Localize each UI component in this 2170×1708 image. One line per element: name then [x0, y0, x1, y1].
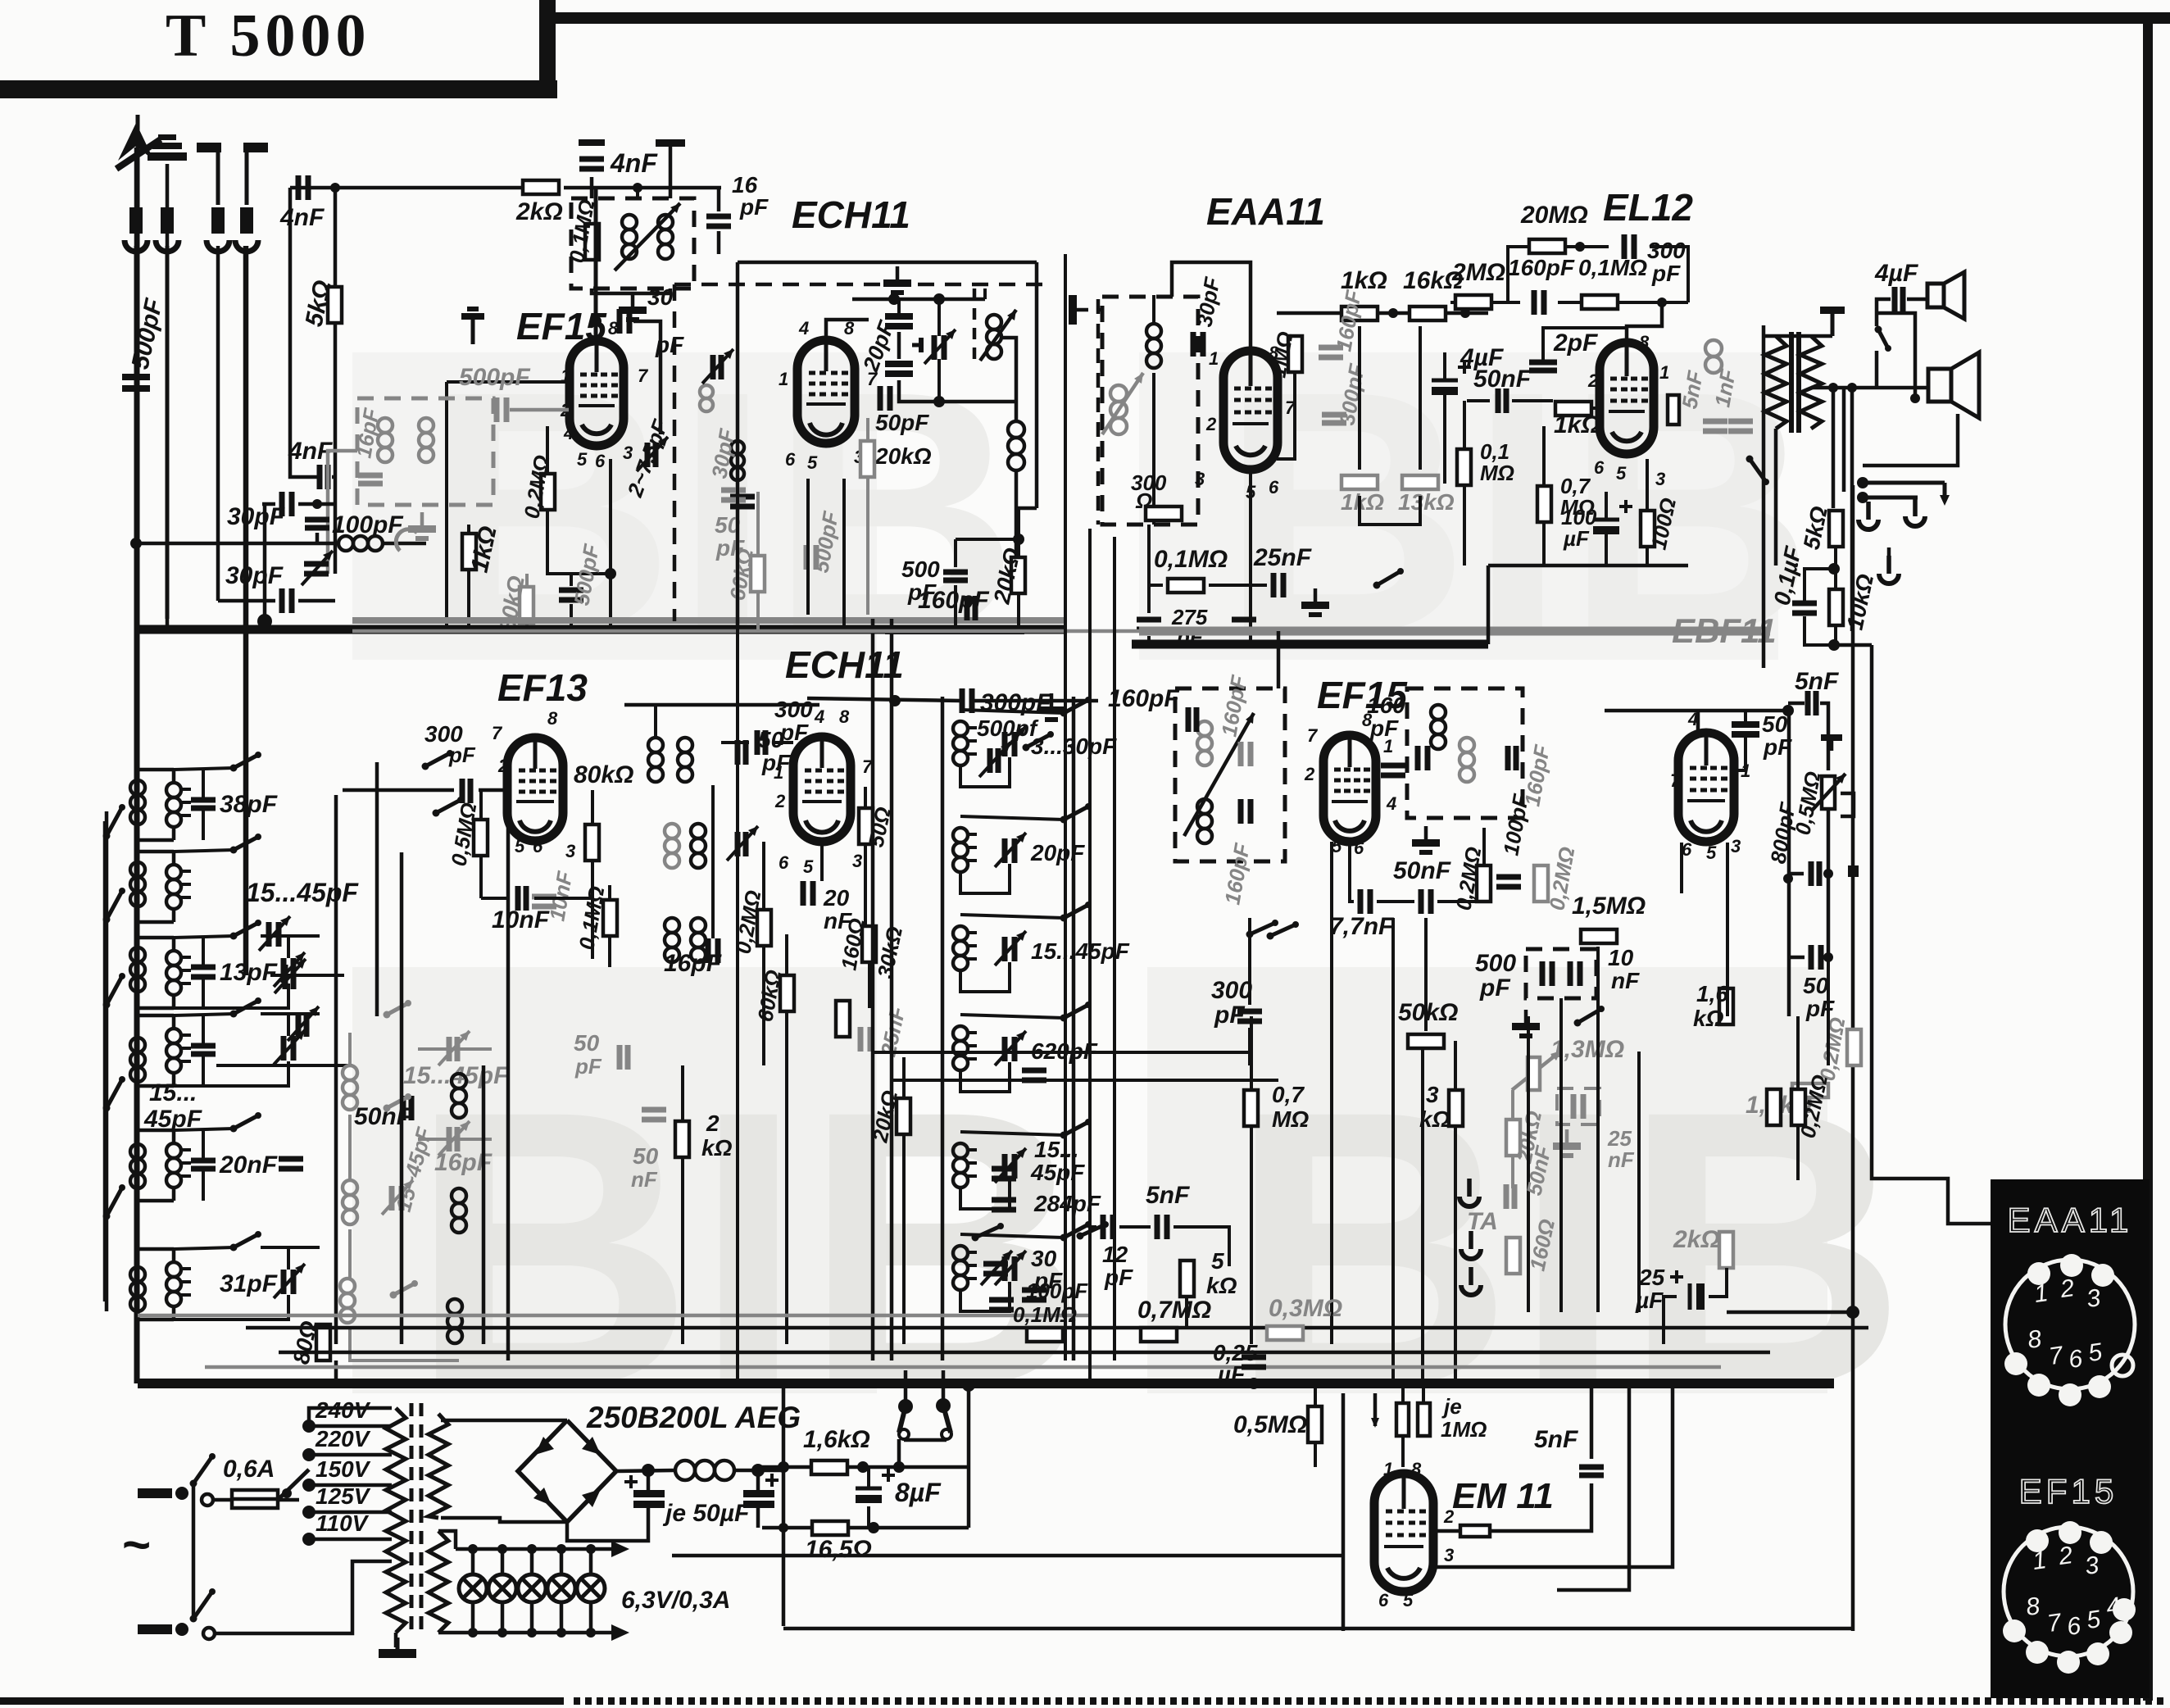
- wire: [418, 1047, 492, 1051]
- wire: [1557, 1383, 1629, 1590]
- wire: [438, 1414, 567, 1420]
- label 125V: [316, 1483, 371, 1509]
- pin 8b: [1269, 343, 1279, 363]
- label 25µF a: [1638, 1265, 1665, 1290]
- svg-text:50kΩ: 50kΩ: [1398, 999, 1458, 1026]
- label 6,3V/0,3A: [621, 1587, 730, 1614]
- wire: [288, 1247, 289, 1265]
- label 60kΩ g: [724, 547, 758, 602]
- pin 4a: [798, 318, 809, 338]
- wire: [1341, 1393, 1346, 1631]
- svg-text:1: 1: [1659, 362, 1669, 383]
- wire: [288, 1014, 289, 1032]
- svg-text:50: 50: [633, 1143, 659, 1169]
- dashed wire: [674, 283, 1049, 287]
- junction: [468, 1628, 478, 1638]
- svg-text:25nF: 25nF: [1253, 544, 1312, 571]
- label pF f: [1369, 715, 1399, 741]
- label 160 f: [1367, 693, 1405, 718]
- jack TA 2: [1461, 1231, 1481, 1259]
- pin 4g: [1687, 709, 1698, 729]
- band capacitor 5: [191, 1161, 216, 1169]
- osc switch 1: [1060, 697, 1092, 717]
- resistor 50Ω: [859, 808, 873, 844]
- osc trimmer 2: [995, 833, 1026, 867]
- resistor 0,1MΩ: [585, 224, 599, 260]
- svg-text:20nF: 20nF: [219, 1152, 278, 1179]
- wire: [721, 741, 749, 744]
- wire: [852, 298, 985, 302]
- wire: [342, 790, 343, 1383]
- ecap 50µF b: [743, 1470, 779, 1508]
- wire: [1834, 643, 1872, 647]
- pin 6e: [779, 852, 789, 873]
- label 4nF top: [610, 148, 658, 178]
- top cap lead: [594, 188, 598, 341]
- label 300pF g: [1334, 361, 1369, 427]
- resistor 20kΩ g: [1506, 1120, 1520, 1156]
- pin 6f: [1354, 838, 1364, 858]
- svg-text:160pF: 160pF: [1108, 685, 1179, 712]
- wire: [1842, 388, 1846, 492]
- svg-text:EAA11: EAA11: [2008, 1201, 2133, 1239]
- label 20nF: [219, 1152, 278, 1179]
- svg-text:7: 7: [638, 366, 649, 386]
- svg-text:110V: 110V: [316, 1510, 370, 1536]
- resistor 0,1MΩ b: [1168, 579, 1204, 593]
- wire: [1358, 326, 1361, 470]
- band coil 6: [138, 1249, 191, 1320]
- socket EAA11: [2004, 1254, 2135, 1406]
- wire: [334, 459, 338, 574]
- label 25nF g2: [1607, 1126, 1632, 1151]
- pin 2c: [1587, 370, 1599, 391]
- osc switch 5: [1060, 1119, 1092, 1139]
- wire: [1424, 918, 1428, 1031]
- resistor 160Ω a: [862, 926, 876, 962]
- capacitor 300pF r2: [462, 779, 470, 803]
- wire: [1147, 636, 1151, 644]
- svg-text:4µF: 4µF: [1874, 260, 1918, 287]
- label uF: [1563, 526, 1590, 551]
- mains terminal 2: [138, 1623, 188, 1636]
- wire: [1688, 311, 1765, 336]
- wire: [1113, 537, 1116, 1360]
- wire: [897, 1439, 901, 1467]
- osc trimmer 5: [995, 1148, 1026, 1183]
- main ground bus: [138, 1379, 1834, 1388]
- gray cap 50nF2: [642, 1110, 666, 1120]
- svg-text:160pF: 160pF: [1508, 255, 1575, 280]
- label 500pF: [127, 296, 168, 371]
- wire: [1709, 1268, 1727, 1297]
- junction: [933, 293, 945, 305]
- svg-text:2: 2: [774, 791, 786, 811]
- label 15...45pF: [1031, 938, 1130, 964]
- label pF f2: [1479, 974, 1510, 1002]
- pin 1: [561, 366, 570, 386]
- resistor 0,1MΩ h: [1027, 1328, 1063, 1342]
- wire: [525, 623, 529, 629]
- label pF 12: [1104, 1265, 1133, 1290]
- wire: [348, 1033, 352, 1065]
- wire: [967, 1385, 971, 1528]
- label 0,2MΩ m: [730, 888, 765, 956]
- capacitor 4nF top: [579, 139, 605, 169]
- svg-text:10: 10: [1608, 945, 1634, 970]
- label 80Ω: [288, 1319, 322, 1366]
- svg-text:0,6A: 0,6A: [223, 1456, 275, 1483]
- svg-text:8: 8: [1411, 1459, 1422, 1479]
- label kΩ v: [1693, 1006, 1724, 1031]
- rail coil: [130, 947, 145, 992]
- gray switch d: [390, 1280, 419, 1299]
- svg-text:5: 5: [577, 449, 588, 470]
- wire: [525, 574, 529, 587]
- band switch 3: [230, 920, 262, 940]
- wire: [1796, 1125, 1800, 1180]
- wire: [1850, 388, 1854, 631]
- pilot lamp 1: [459, 1574, 487, 1602]
- wire: [866, 477, 869, 615]
- wire: [899, 380, 1016, 402]
- wire: [348, 1229, 352, 1279]
- pin 1h: [1383, 1459, 1393, 1479]
- resistor 80kΩ: [520, 587, 533, 623]
- mains switch 2: [190, 1588, 216, 1639]
- capacitor 0,25µF: [1242, 1357, 1266, 1367]
- resistor 80Ω: [316, 1324, 330, 1360]
- wire: [624, 703, 819, 707]
- gray cap 1nF: [1728, 421, 1753, 431]
- band capacitor 4: [191, 1046, 216, 1054]
- svg-text:je: je: [1441, 1394, 1462, 1419]
- speaker big: [1928, 352, 1979, 418]
- wire: [609, 459, 612, 629]
- label 800pF r: [1765, 800, 1800, 865]
- svg-text:1,6: 1,6: [1696, 981, 1728, 1006]
- wire: [174, 983, 288, 1008]
- pin 7d: [492, 723, 503, 743]
- svg-text:7: 7: [1670, 770, 1682, 791]
- arrow em: [1371, 1393, 1379, 1428]
- wire: [1487, 566, 1491, 644]
- label 50pF g2: [574, 1030, 600, 1056]
- label 20MΩ: [1520, 202, 1588, 229]
- capacitor 300pF bot: [1237, 1011, 1262, 1021]
- IF3 dashed box: [1175, 688, 1285, 861]
- antenna: [116, 123, 161, 365]
- chain switch: [103, 1076, 126, 1112]
- pin 4f: [1386, 793, 1396, 814]
- wire: [213, 1561, 392, 1633]
- label 160pF g4: [1519, 743, 1555, 808]
- capacitor 300pF m: [757, 730, 765, 755]
- label 300pF top: [980, 689, 1051, 716]
- wire: [655, 785, 656, 824]
- wire: [669, 288, 673, 293]
- junction: [497, 1544, 507, 1554]
- label mains ~: [121, 1517, 150, 1572]
- svg-text:8: 8: [547, 708, 558, 729]
- label 275pF: [1171, 605, 1208, 629]
- label 1,6 v: [1696, 981, 1728, 1006]
- pin 2f: [1304, 764, 1315, 784]
- label 1kΩ h: [1341, 267, 1387, 294]
- bottom border dotted: [574, 1697, 2163, 1705]
- label 2kΩ v: [706, 1111, 720, 1136]
- pin 5h: [1403, 1590, 1414, 1610]
- wire: [1209, 584, 1267, 587]
- dashed det box: [1102, 297, 1198, 525]
- speaker small: [1927, 272, 1964, 319]
- wire: [202, 1130, 205, 1158]
- svg-text:5: 5: [807, 452, 818, 473]
- tube label EAA11: [1206, 190, 1325, 233]
- label 15-45 gray: [403, 1062, 509, 1089]
- ground transformer: [379, 1638, 416, 1658]
- svg-text:1: 1: [1209, 348, 1219, 369]
- switch bot1: [972, 1223, 1005, 1242]
- label 50nF c: [1393, 857, 1451, 884]
- label 160pF g: [1331, 288, 1366, 353]
- capacitor 160 f: [1381, 765, 1405, 775]
- heater rail top: [456, 1541, 629, 1557]
- svg-text:6: 6: [1354, 838, 1364, 858]
- svg-text:15...: 15...: [1034, 1137, 1078, 1162]
- wire: [290, 188, 320, 477]
- tube label EM11: [1452, 1476, 1554, 1516]
- wire: [806, 479, 810, 615]
- svg-text:20MΩ: 20MΩ: [1520, 202, 1588, 229]
- svg-text:2: 2: [1443, 1506, 1455, 1527]
- label 20nF m1: [823, 885, 850, 911]
- wire: [1443, 352, 1446, 380]
- label 0,5MΩ em: [1233, 1411, 1307, 1438]
- wire: [864, 844, 867, 926]
- pin 6g: [1682, 839, 1692, 860]
- coil det2: [1146, 324, 1161, 368]
- wire: [481, 897, 510, 900]
- label 300pF m2: [779, 720, 809, 745]
- resistor 1kΩ c: [1555, 402, 1591, 416]
- pin 5g: [1706, 843, 1717, 863]
- junction: [1828, 383, 1838, 393]
- wire: [960, 1282, 1010, 1311]
- label 240V: [315, 1397, 371, 1423]
- wire: [205, 1365, 1721, 1370]
- label TA: [1467, 1208, 1498, 1235]
- wire: [1492, 301, 1520, 304]
- svg-text:pF: pF: [1369, 715, 1399, 741]
- gray cap 5nF: [1703, 421, 1727, 431]
- tap 220V: [302, 1448, 392, 1461]
- band capacitor 1: [191, 800, 216, 808]
- resistor 3kΩ: [1449, 1090, 1463, 1126]
- wire: [570, 604, 573, 629]
- wire: [270, 974, 344, 977]
- svg-text:MΩ: MΩ: [1480, 461, 1514, 485]
- wire: [218, 599, 275, 603]
- label 50pF: [875, 410, 929, 435]
- label 160pF r: [1219, 841, 1255, 906]
- svg-text:13kΩ: 13kΩ: [1398, 489, 1455, 515]
- wire: [1174, 1227, 1229, 1266]
- wire: [1434, 1383, 1673, 1567]
- resistor 0,2MΩ: [541, 474, 555, 510]
- wire: [1527, 1016, 1530, 1312]
- wire: [334, 795, 338, 1344]
- label 20pF: [1030, 840, 1085, 865]
- label 1MΩ: [1265, 329, 1297, 379]
- label 0,2MΩ: [519, 453, 554, 520]
- switch if3 b: [1267, 921, 1300, 940]
- wire: [974, 699, 1098, 703]
- svg-text:EF13: EF13: [497, 666, 588, 709]
- wire: [534, 841, 536, 902]
- wire: [410, 704, 624, 706]
- wire: [245, 246, 249, 975]
- resistor 0,1MΩ r2: [603, 900, 617, 936]
- IF3 coils: [1184, 713, 1254, 843]
- wire: [774, 741, 793, 744]
- label 15-45 b1: [149, 1079, 197, 1106]
- cap bot2: [992, 1200, 1016, 1210]
- IF2 coil mid: [665, 824, 706, 868]
- gnd 500pF: [1512, 1010, 1540, 1038]
- label 30kΩ: [873, 924, 908, 981]
- svg-text:0,7MΩ: 0,7MΩ: [1137, 1297, 1211, 1324]
- wire: [136, 542, 338, 546]
- band capacitor 3: [191, 967, 216, 977]
- junction: [1828, 639, 1840, 651]
- wire: [1744, 711, 1747, 723]
- resistor 1kΩ g: [1341, 475, 1378, 489]
- antenna sym small: [461, 307, 484, 344]
- wire: [1907, 298, 1927, 302]
- label 1kΩ: [466, 524, 502, 575]
- label 60kΩ m: [752, 968, 786, 1024]
- wire: [1016, 506, 1037, 511]
- pin 5: [577, 449, 588, 470]
- pin 8f: [1362, 710, 1373, 730]
- junction: [962, 1379, 975, 1392]
- svg-text:4: 4: [1386, 793, 1396, 814]
- wire: [1605, 709, 1788, 713]
- gray hook pin: [396, 529, 417, 551]
- label 2kΩ TA: [1673, 1226, 1720, 1253]
- capacitor 16pF: [706, 216, 731, 226]
- wire: [738, 261, 1037, 265]
- wire bridge top: [441, 1419, 567, 1423]
- wire: [213, 1498, 232, 1502]
- junction: [893, 1461, 905, 1473]
- wire: [867, 1467, 870, 1488]
- label pF mid: [715, 535, 745, 561]
- label 45pF bot: [1030, 1160, 1085, 1185]
- svg-text:3: 3: [1731, 836, 1741, 856]
- wire: [530, 1602, 534, 1633]
- svg-text:5: 5: [1616, 463, 1627, 484]
- capacitor 30pF det: [1193, 332, 1203, 357]
- hook a: [1859, 502, 1878, 529]
- pin 1f: [1383, 736, 1393, 756]
- wire: [681, 1157, 684, 1344]
- wire: [510, 408, 569, 412]
- pin 2e: [774, 791, 786, 811]
- label 50nF g2: [631, 1167, 658, 1192]
- pin 3e: [852, 851, 862, 871]
- wire: [904, 1370, 908, 1406]
- wire: [166, 619, 170, 629]
- resistor 1,6kΩ v: [1719, 988, 1733, 1024]
- junction: [527, 1628, 537, 1638]
- wire: [1514, 401, 1555, 408]
- pilot lamp 4: [547, 1574, 575, 1602]
- osc trimmer 1: [995, 726, 1026, 761]
- cap 2-7.5: [637, 437, 668, 471]
- capacitor 50nF l: [403, 1096, 411, 1120]
- svg-text:je 50µF: je 50µF: [662, 1500, 750, 1527]
- pin 3a: [854, 447, 864, 467]
- capacitor 160pF h: [1534, 290, 1544, 315]
- wire: [591, 861, 594, 959]
- junction: [527, 1544, 537, 1554]
- wire: [418, 1138, 492, 1141]
- svg-text:500pF: 500pF: [459, 364, 530, 391]
- wire: [1708, 1268, 1727, 1311]
- label 2pF: [1553, 329, 1598, 357]
- junction: [857, 1461, 869, 1473]
- pilot lamp 3: [518, 1574, 546, 1602]
- pin 7g: [1670, 770, 1682, 791]
- junction: [751, 1464, 765, 1477]
- label 2kΩ v2: [701, 1135, 733, 1161]
- decorative watermark block: [352, 320, 1907, 1469]
- wire: [1734, 737, 1746, 770]
- svg-text:1: 1: [774, 762, 783, 783]
- wire: [383, 542, 426, 546]
- label 0,5MΩ: [446, 801, 481, 868]
- svg-text:2: 2: [497, 756, 509, 776]
- pot 0,5MΩ: [1811, 774, 1854, 816]
- fuse 0,6A: [232, 1490, 278, 1508]
- wire: [1618, 301, 1688, 304]
- wire: [216, 246, 220, 601]
- svg-text:300: 300: [774, 697, 813, 722]
- wire: [960, 1132, 1064, 1135]
- junction: [642, 1464, 655, 1477]
- capacitor 4µF sp: [1895, 287, 1903, 311]
- resistor 13kΩ g: [1402, 475, 1438, 489]
- resistor 20kΩ b: [1011, 557, 1025, 593]
- wire: [1401, 1436, 1405, 1467]
- capacitor 50pF: [880, 386, 890, 411]
- svg-text:2pF: 2pF: [1553, 329, 1598, 357]
- trimmer osc: [924, 329, 956, 364]
- socket panel: [1991, 1179, 2150, 1698]
- wire: [960, 1234, 1064, 1238]
- label 300pF r2a: [424, 721, 463, 747]
- wire: [309, 1408, 392, 1426]
- chain switch: [103, 888, 126, 924]
- wire: [343, 788, 454, 793]
- tap 150V: [302, 1479, 392, 1492]
- wire: [1650, 247, 1688, 302]
- title box T 5000: [0, 0, 557, 98]
- trimmer g3: [275, 959, 306, 993]
- wire: [1726, 843, 1729, 1016]
